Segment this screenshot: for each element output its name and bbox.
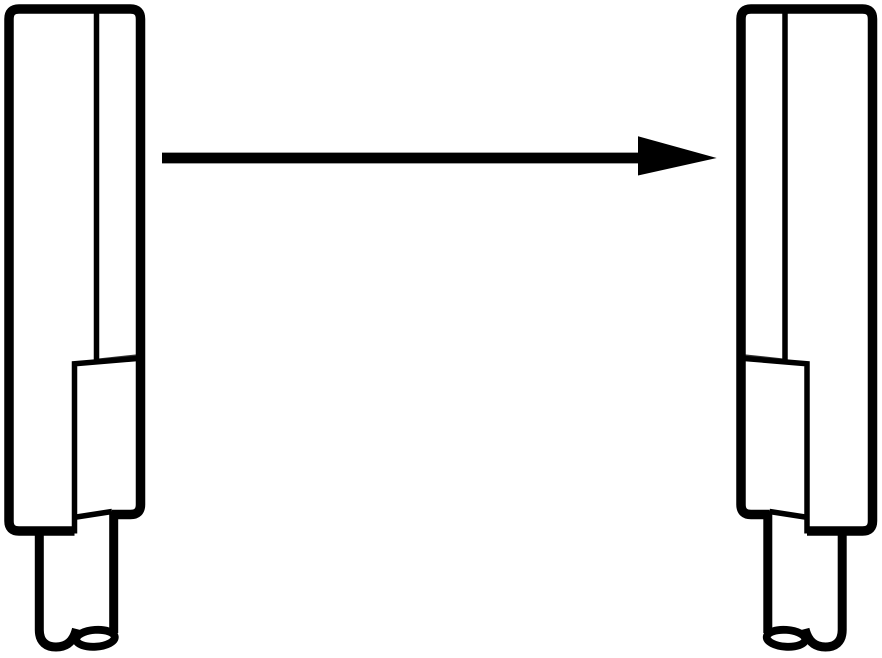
right probe inner vertical line: [782, 10, 788, 361]
right probe tip right side: [763, 512, 772, 634]
left probe tip end ellipse: [76, 629, 116, 648]
left probe sleeve panel: [75, 358, 141, 533]
left probe thin slanted edge line: [97, 355, 139, 360]
left probe tip right side: [109, 512, 118, 634]
left probe tip left side with U bottom: [39, 528, 76, 647]
arrow shaft: [162, 153, 650, 164]
right probe sleeve panel: [742, 358, 808, 533]
left probe sleeve bottom slant: [77, 512, 113, 518]
right probe tip left side with U bottom: [805, 528, 842, 647]
right probe sleeve bottom slant: [770, 512, 806, 518]
right probe thin slanted edge line: [743, 355, 785, 360]
left probe body outline: [9, 9, 141, 531]
arrow head: [638, 136, 717, 175]
left probe inner vertical line: [94, 10, 100, 361]
right probe tip end ellipse: [766, 629, 806, 648]
right probe body outline: [741, 9, 873, 531]
